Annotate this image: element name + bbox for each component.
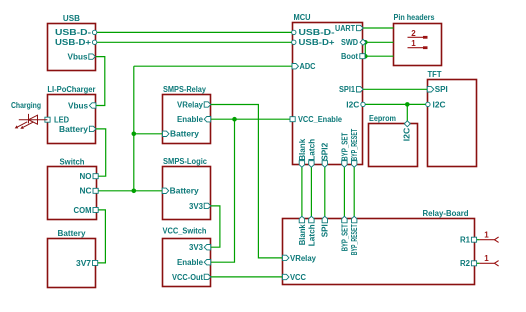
svg-text:3V3: 3V3 [189,202,204,211]
pin MCU.USB-D+ (circle) [292,40,296,44]
wire SPI1 to TFT SPI [363,88,427,90]
wire R1 stub [475,239,480,241]
wire BYP_RESET [353,165,355,219]
svg-text:SPI2: SPI2 [321,142,330,161]
wire 3V3 net [211,206,220,247]
svg-text:Pin headers: Pin headers [394,13,435,22]
svg-text:1: 1 [484,254,489,263]
connector R1 pin 1 [480,230,499,242]
pin LiPo.Vbus (input) [89,103,96,108]
junction I2C/Eeprom [405,102,410,107]
sheet TFT [428,80,477,167]
svg-text:VRelay: VRelay [177,100,204,109]
wire I2C to TFT I2C [363,103,427,105]
svg-text:VCC_Enable: VCC_Enable [298,115,343,124]
wire Vbus (USB to LI-PoCharger) [96,57,105,106]
wire Boot to Pin headers [363,55,394,57]
wire UART to Pin headers [363,27,394,29]
pin TFT.SPI (input) [427,87,434,92]
wire R2 stub [475,262,480,264]
svg-text:R1: R1 [460,236,471,245]
wire Switch COM to Battery 3V7 [96,210,106,263]
wire battery net to MCU ADC [134,65,292,67]
sheet Relay-Board [283,219,475,285]
svg-text:I2C: I2C [346,100,359,109]
junction SWD [363,40,368,45]
svg-text:Latch: Latch [307,139,316,161]
pin LiPo.LED (square) [45,117,50,122]
wire Blank [301,165,303,219]
sheet Pin headers [394,24,442,66]
junction Boot [363,54,368,59]
pin RelayBoard.Blank (up) [299,216,304,223]
svg-text:MCU: MCU [294,13,311,22]
wire VCC-Out to Relay-Board VCC [211,276,283,278]
sheet Eeprom [369,124,418,167]
pin RelayBoard.BYP_RESET (up) [352,216,357,223]
wire Enable net vertical [211,119,235,262]
svg-text:Blank: Blank [298,224,307,246]
svg-text:USB: USB [63,14,80,23]
pin USB.USB-D- (circle) [92,30,96,34]
svg-text:VCC_Switch: VCC_Switch [163,227,207,236]
pin MCU.Boot (square) [360,54,365,59]
svg-text:Battery: Battery [58,229,87,238]
svg-text:SWD: SWD [341,38,358,47]
pin RelayBoard.SPI (up) [322,216,327,223]
svg-text:SMPS-Relay: SMPS-Relay [163,85,207,94]
wire USB-D- (USB to MCU) [95,31,292,33]
pin TFT.I2C (circle) [426,102,430,106]
svg-text:COM: COM [74,206,92,215]
svg-text:USB-D-: USB-D- [55,28,91,37]
wire Battery to Switch NO [96,129,106,176]
pin Battery.3V7 (square) [93,260,98,265]
connector pin 1 (Pin headers) [408,39,428,49]
pin Switch.NO (square) [93,174,98,179]
svg-text:Eeprom: Eeprom [369,114,396,123]
svg-text:VCC-Out: VCC-Out [172,273,203,282]
pin MCU.I2C (circle) [361,102,365,106]
svg-text:3V7: 3V7 [76,259,92,268]
pin MCU.UART (output) [357,25,364,30]
pin RelayBoard.BYP_SET (up) [342,216,347,223]
sheet SMPS-Relay [163,95,211,144]
pin MCU.VCC_Enable (square) [290,117,295,122]
svg-text:Battery: Battery [59,125,89,134]
svg-text:UART: UART [335,24,355,33]
pin SMPS-Logic.3V3 (output) [204,203,211,208]
svg-text:TFT: TFT [428,70,442,79]
wire SPI2 [324,165,326,219]
svg-text:Vbus: Vbus [68,101,89,110]
pin MCU.SWD (diamond) [360,39,366,45]
LED D1 symbol [18,114,48,127]
pin MCU.BYP_RESET (down) [352,161,357,168]
pin MCU.USB-D- (circle) [292,30,296,34]
pin VCC_Switch.3V3 (input) [204,245,211,250]
pin Switch.NC (square) [93,188,98,193]
svg-text:1: 1 [484,230,489,239]
svg-text:Charging: Charging [11,101,41,110]
sheet VCC_Switch [163,239,211,287]
wire VRelay net [211,105,283,258]
svg-text:LED: LED [54,116,69,125]
sheet SMPS-Logic [163,167,211,220]
svg-text:Enable: Enable [177,115,204,124]
junction battery/NC [132,189,137,194]
svg-text:2: 2 [411,29,416,38]
pin MCU.Latch (down) [309,161,314,168]
svg-text:NC: NC [80,187,92,196]
connector R2 pin 1 [480,254,499,266]
svg-text:Switch: Switch [60,157,85,166]
sheet USB [48,24,96,71]
LED D1 arrowheads [15,125,24,128]
svg-text:Battery: Battery [170,187,200,196]
pin MCU.Blank (down) [299,161,304,168]
wire battery net vertical [133,66,135,191]
pin SMPS-Relay.Enable (input) [204,117,211,122]
svg-text:VRelay: VRelay [290,254,317,263]
sheet Battery [48,239,96,288]
pin USB.USB-D+ (circle) [92,40,96,44]
sheet Switch [48,167,97,220]
pin RelayBoard.VCC (input) [283,274,290,279]
pin RelayBoard.R2 (square) [471,261,476,266]
svg-text:LI-PoCharger: LI-PoCharger [47,85,95,94]
pin RelayBoard.R1 (square) [471,237,476,242]
svg-text:SPI1: SPI1 [339,85,356,94]
svg-text:Blank: Blank [298,138,307,161]
pin RelayBoard.VRelay (input) [283,255,290,260]
svg-text:ADC: ADC [300,62,316,71]
svg-text:I2C: I2C [433,100,446,109]
wire SWD to Pin headers [363,41,394,43]
svg-text:USB-D+: USB-D+ [55,38,91,47]
svg-text:Vbus: Vbus [68,53,89,62]
svg-text:I2C: I2C [402,128,411,142]
pin SMPS-Logic.Battery (input) [162,188,169,193]
wire BYP_SET [343,165,345,219]
pin RelayBoard.Latch (up) [309,216,314,223]
svg-text:NO: NO [80,172,92,181]
connector pin 2 (Pin headers) [408,29,428,39]
sheet MCU [293,23,363,165]
svg-text:R2: R2 [460,259,471,268]
wire Enable net horizontal [211,118,292,120]
wire Latch [310,165,312,219]
junction Enable net [232,117,237,122]
svg-text:BYP_SET: BYP_SET [340,133,349,161]
pin MCU.SPI1 (output) [357,87,364,92]
svg-text:1: 1 [411,39,416,48]
svg-text:SPI: SPI [321,224,330,237]
wire battery net to SMPS-Relay Battery [134,133,163,135]
pin Eeprom.I2C (diamond) [404,121,410,127]
wire SWD-Boot tie [364,42,366,56]
svg-text:Battery: Battery [170,130,200,139]
pin Switch.COM (square) [93,207,98,212]
pin MCU.SPI2 (down) [322,161,327,168]
svg-text:Latch: Latch [307,224,316,246]
sheet LI-PoCharger [48,95,96,144]
svg-text:SPI: SPI [435,85,448,94]
svg-text:Relay-Board: Relay-Board [423,209,469,218]
wire I2C to Eeprom [406,104,408,123]
svg-text:VCC: VCC [290,273,306,282]
svg-text:USB-D+: USB-D+ [299,38,335,47]
pin SMPS-Relay.VRelay (output) [204,102,211,107]
svg-text:SMPS-Logic: SMPS-Logic [163,157,208,166]
svg-text:USB-D-: USB-D- [299,28,335,37]
pin VCC_Switch.VCC-Out (output) [204,274,211,279]
svg-text:BYP_RESET: BYP_RESET [350,129,359,161]
wire Switch NC to SMPS-Logic Battery [96,190,162,192]
svg-text:BYP_RESET: BYP_RESET [350,224,359,255]
pin VCC_Switch.Enable (input) [204,260,211,265]
junction battery/SMPS-Relay [132,132,137,137]
pin USB.Vbus (output) [89,54,96,59]
svg-text:Enable: Enable [177,258,204,267]
svg-text:BYP_SET: BYP_SET [340,224,349,251]
pin MCU.ADC (input) [292,64,299,69]
svg-text:Boot: Boot [341,52,358,61]
pin LiPo.Battery (output) [89,126,96,131]
pin SMPS-Relay.Battery (input) [163,131,170,136]
wire USB-D+ (USB to MCU) [95,41,292,43]
svg-text:3V3: 3V3 [189,243,204,252]
pin MCU.BYP_SET (down) [342,161,347,168]
